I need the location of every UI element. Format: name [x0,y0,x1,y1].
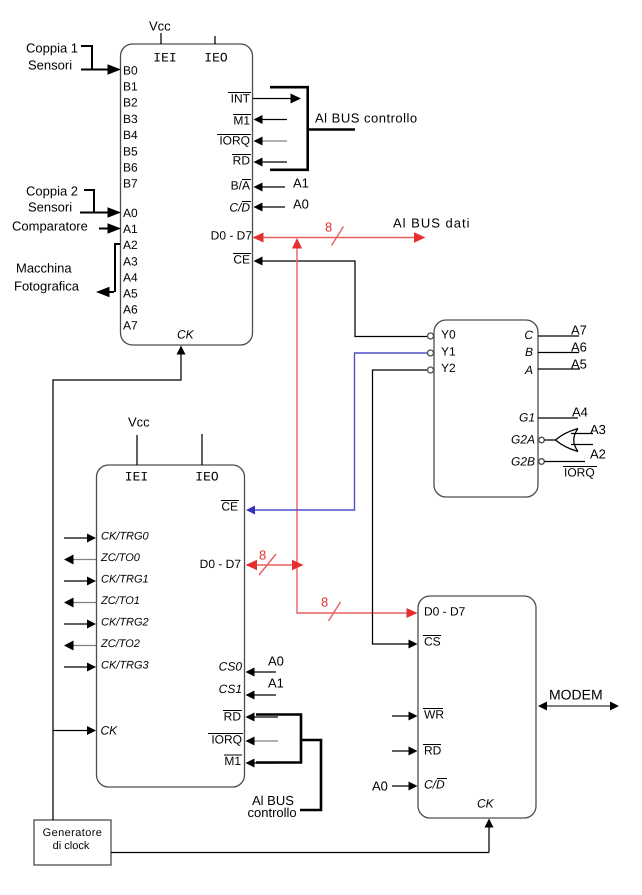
svg-text:INT: INT [231,92,251,106]
svg-text:Generatore: Generatore [43,827,103,839]
svg-text:A7: A7 [571,323,587,338]
svg-text:Macchina: Macchina [16,261,72,276]
svg-text:B6: B6 [123,161,138,175]
svg-text:8: 8 [259,548,266,563]
svg-text:C/D: C/D [424,778,445,792]
svg-text:B2: B2 [123,96,138,110]
svg-text:D0 - D7: D0 - D7 [211,229,253,243]
svg-text:B5: B5 [123,145,138,159]
svg-text:Fotografica: Fotografica [14,279,80,294]
svg-text:A2: A2 [123,238,138,252]
svg-text:A5: A5 [571,357,587,372]
svg-text:D0 - D7: D0 - D7 [424,605,466,619]
svg-text:Sensori: Sensori [28,200,72,215]
svg-text:IORQ: IORQ [564,466,595,480]
svg-text:D0 - D7: D0 - D7 [200,557,242,571]
svg-text:Y1: Y1 [441,345,456,359]
svg-text:A4: A4 [572,405,588,420]
svg-text:CK/TRG1: CK/TRG1 [101,574,149,586]
svg-text:CK: CK [177,328,195,342]
svg-text:IEI: IEI [125,470,148,485]
svg-text:A0: A0 [372,779,388,794]
svg-text:B: B [525,345,533,359]
svg-text:M1: M1 [233,114,250,128]
svg-text:CK: CK [101,724,119,738]
svg-text:CE: CE [233,253,250,267]
svg-text:MODEM: MODEM [549,687,603,703]
svg-text:A6: A6 [123,303,138,317]
svg-text:CK: CK [477,797,495,811]
svg-text:C: C [524,328,533,342]
svg-text:B0: B0 [123,64,138,78]
svg-text:A0: A0 [123,206,138,220]
svg-text:WR: WR [424,708,444,722]
svg-text:B1: B1 [123,80,138,94]
svg-text:CK/TRG2: CK/TRG2 [101,617,149,629]
svg-text:A2: A2 [590,447,606,462]
svg-text:IEO: IEO [195,470,219,485]
svg-text:G2B: G2B [511,455,535,469]
svg-text:RD: RD [233,154,251,168]
svg-text:Al BUS dati: Al BUS dati [393,216,470,231]
svg-text:CK/TRG0: CK/TRG0 [101,531,150,543]
svg-text:Coppia 1: Coppia 1 [26,41,78,56]
svg-text:IORQ: IORQ [211,733,242,747]
svg-text:B7: B7 [123,177,138,191]
svg-text:G1: G1 [519,411,535,425]
svg-text:A1: A1 [268,676,284,691]
svg-text:CS1: CS1 [219,682,242,696]
svg-text:IEO: IEO [204,51,228,66]
svg-text:B/A: B/A [231,179,250,193]
svg-text:A7: A7 [123,319,138,333]
svg-text:A3: A3 [123,255,138,269]
svg-text:8: 8 [321,595,328,610]
svg-text:A: A [524,363,533,377]
svg-text:ZC/TO1: ZC/TO1 [100,595,140,607]
svg-text:ZC/TO0: ZC/TO0 [100,552,141,564]
svg-text:A6: A6 [571,340,587,355]
svg-text:Al BUS controllo: Al BUS controllo [315,111,418,126]
svg-text:RD: RD [424,744,442,758]
svg-text:CS: CS [424,635,441,649]
svg-text:ZC/TO2: ZC/TO2 [100,638,140,650]
svg-text:A0: A0 [268,654,284,669]
svg-text:A0: A0 [293,197,309,212]
svg-text:IORQ: IORQ [219,134,250,148]
svg-text:IEI: IEI [153,51,176,66]
svg-text:di clock: di clock [53,840,90,852]
svg-text:A1: A1 [293,176,309,191]
svg-text:CS0: CS0 [219,660,243,674]
svg-text:A5: A5 [123,287,138,301]
svg-text:CK/TRG3: CK/TRG3 [101,660,150,672]
svg-text:CE: CE [221,500,238,514]
svg-text:Vcc: Vcc [128,415,150,430]
svg-text:A3: A3 [590,422,606,437]
svg-text:8: 8 [325,220,332,235]
svg-text:Sensori: Sensori [28,58,72,73]
svg-text:G2A: G2A [511,433,535,447]
svg-text:B4: B4 [123,128,138,142]
svg-text:Y0: Y0 [441,328,456,342]
svg-text:A1: A1 [123,222,138,236]
svg-text:controllo: controllo [248,805,297,820]
svg-text:Vcc: Vcc [149,19,171,34]
svg-text:B3: B3 [123,112,138,126]
svg-text:C/D: C/D [229,201,250,215]
svg-text:A4: A4 [123,271,138,285]
svg-text:Y2: Y2 [441,361,456,375]
svg-text:Comparatore: Comparatore [12,219,88,234]
svg-text:Coppia 2: Coppia 2 [26,184,78,199]
svg-text:RD: RD [224,710,242,724]
svg-text:M1: M1 [224,754,241,768]
